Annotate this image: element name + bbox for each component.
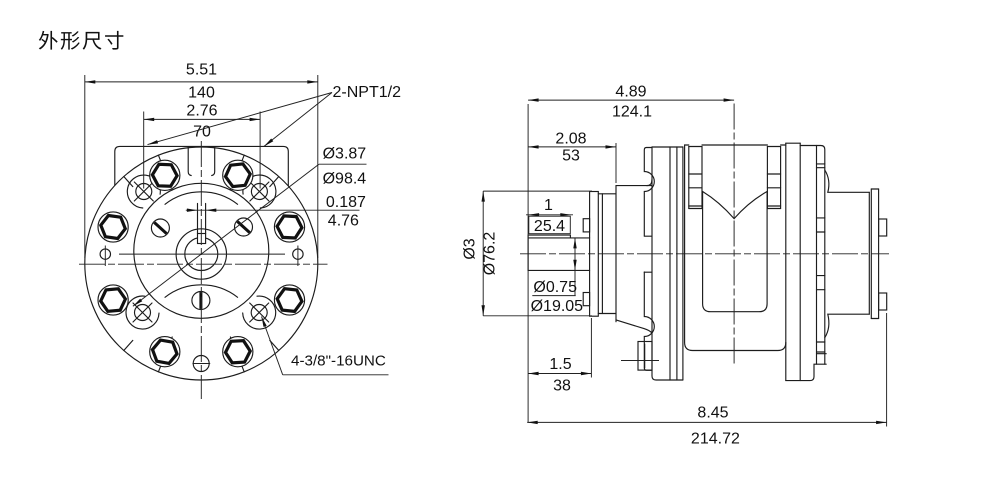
top notch slot on flange [188,147,191,175]
svg-text:Ø3: Ø3 [462,238,479,259]
shared left extension line [527,104,529,422]
svg-text:0.187: 0.187 [326,194,366,211]
bottom-left block on flange [638,342,652,371]
dimension 5.51 / 140 overall width [84,75,86,258]
port block housing top (left view) [115,146,288,186]
svg-text:4.89: 4.89 [615,84,646,101]
keyway extension line left [197,204,199,234]
shaft horizontal centerline [119,253,285,255]
port boss column on flange face (top) [644,148,654,237]
hex bolt B1 [274,212,304,242]
hex bolt B5 [98,285,128,315]
V-groove conical bore [703,192,768,219]
end cap stud top [879,219,887,236]
dimension 2.08 / 53 [528,146,616,148]
svg-text:214.72: 214.72 [691,431,740,448]
slotted screw S3 [192,292,210,310]
NPT port boss ear P3 bottom-left [126,296,159,329]
svg-text:25.4: 25.4 [534,218,565,235]
end cap [868,192,870,314]
drum shoulder bottom [825,314,870,337]
svg-text:Ø19.05: Ø19.05 [531,298,584,315]
hex bolt B6 [150,337,180,367]
right view horizontal centerline [520,253,889,255]
rim plate bottom studs [817,341,825,343]
svg-text:8.45: 8.45 [697,405,728,422]
NPT port boss ear P4 bottom-right [243,296,276,329]
NPT port circle P2 top-right [251,184,267,200]
shaft hub circle [176,229,226,279]
dimension 0.187 / 4.76 keyway width [186,209,360,211]
bottom port center tick [621,360,659,362]
svg-text:Ø98.4: Ø98.4 [323,171,367,188]
section center line [733,104,735,367]
keyway extension line right [205,204,207,234]
svg-text:4.76: 4.76 [328,213,359,230]
hex bolt B8 [274,285,304,315]
bottom small hole [193,356,209,372]
hex bolt B4 [98,212,128,242]
right tie-rod stud (threaded) [766,147,768,209]
svg-text:38: 38 [553,378,571,395]
svg-text:Ø3.87: Ø3.87 [323,146,367,163]
svg-text:Ø76.2: Ø76.2 [482,232,499,276]
hex bolt B2 [223,160,253,190]
stud thread lines [689,173,702,175]
dimension Ø3 / Ø76.2 vertical [482,191,484,316]
svg-text:Ø0.75: Ø0.75 [533,279,577,296]
dimension 1.5 / 38 [528,373,591,375]
shaft collar Ø76.2 disc [590,192,599,317]
NPT port circle P3 bottom-left [135,305,151,321]
dimension 2.76 / 70 port spacing [143,112,145,189]
side hole right [293,249,303,259]
svg-text:140: 140 [188,85,215,102]
title 外形尺寸 (overall dimensions) [39,31,124,50]
neck section [598,193,616,195]
boss outer circle [134,183,269,318]
svg-text:4-3/8"-16UNC: 4-3/8"-16UNC [291,353,386,370]
front boss block [615,186,617,322]
dimension Ø0.75 / Ø19.05 bore [574,238,576,296]
NPT port circle P4 bottom-right [251,305,267,321]
hex bolt B3 [150,160,180,190]
shaft stub with key [528,237,590,239]
svg-text:2.08: 2.08 [555,131,586,148]
keyway [198,234,206,244]
dimension 4.89 / 124.1 [528,99,734,101]
radial casting lines [270,177,279,187]
drum shoulder top [825,170,870,192]
end cap stud bottom [879,293,887,310]
svg-text:1.5: 1.5 [549,356,571,373]
vertical centerline left view [200,141,202,399]
flange outer circle Ø140 [85,147,318,380]
mounting flange plate (side view) [651,147,653,376]
NPT port boss ear P2 top-right [243,175,276,208]
dimension 8.45 / 214.72 overall length [527,421,886,423]
rear disc foot [786,364,826,380]
svg-text:124.1: 124.1 [612,104,652,121]
svg-text:1: 1 [544,197,553,214]
shaft bore circle Ø19.05 [185,238,218,271]
svg-text:2.76: 2.76 [186,103,217,120]
svg-text:70: 70 [193,124,211,141]
slotted screw S2 [235,218,253,236]
boss inner chamfer arcs [165,192,238,204]
rear rim plate [800,146,825,365]
left tie-rod stud (threaded) [688,147,690,209]
NPT port circle P1 top-left [136,184,152,200]
internal cavity [703,192,768,312]
rear disc [785,143,787,380]
port boss column on flange face (bottom) [644,272,654,370]
hex bolt B7 [223,337,253,367]
slotted screw S1 [151,219,169,237]
svg-text:5.51: 5.51 [186,62,217,79]
NPT port boss ear P1 top-left [127,175,160,208]
svg-text:2-NPT1/2: 2-NPT1/2 [333,84,402,101]
horizontal centerline left view [79,263,328,265]
svg-text:53: 53 [562,147,580,164]
collar left step tabs [583,219,589,232]
body casing [685,144,786,146]
side hole left [100,249,110,259]
